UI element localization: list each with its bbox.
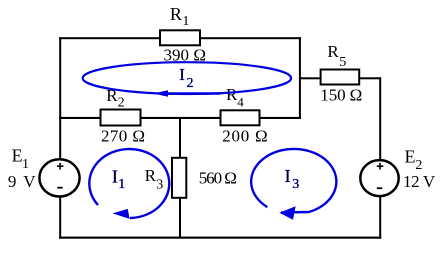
loop current I3 arrowhead [279,206,295,220]
source E1 [39,159,79,196]
loop current I2 ellipse [83,62,291,94]
svg-text:3: 3 [156,177,163,192]
svg-text:E: E [12,145,23,165]
svg-text:1: 1 [118,177,125,192]
wire middle vertical (R3 branch) [179,117,181,238]
wire middle rail [59,117,301,119]
source E2 [360,160,398,196]
svg-text:150 Ω: 150 Ω [320,85,362,104]
wire top rail [59,37,301,39]
svg-text:5: 5 [339,55,346,70]
svg-text:2: 2 [415,158,422,173]
svg-text:12 V: 12 V [403,172,436,191]
E1 plus sign [57,163,64,170]
svg-text:1: 1 [22,157,29,172]
svg-text:I: I [285,166,291,186]
wire right rail [379,77,381,238]
svg-text:1: 1 [182,14,189,29]
resistor R1 [160,30,200,45]
svg-text:4: 4 [237,95,244,110]
loop current I2 arrow [166,92,220,94]
E2 minus sign [377,187,382,189]
loop current I3 arc [251,149,336,213]
svg-text:2: 2 [187,76,194,91]
svg-text:R: R [226,85,238,104]
loop current I1 arrowhead [112,209,129,219]
resistor R5 [321,70,360,85]
wire bottom rail [59,237,381,239]
svg-text:270 Ω: 270 Ω [101,126,145,145]
E1 minus sign [57,187,62,189]
svg-text:R: R [170,4,182,24]
wire R5 branch [300,77,381,79]
svg-text:R: R [145,166,157,185]
svg-text:2: 2 [118,96,125,111]
svg-text:R: R [327,42,339,61]
svg-text:E: E [405,146,416,166]
svg-text:I: I [112,166,118,186]
wire left rail [59,37,61,239]
resistor R4 [221,110,260,125]
svg-text:560 Ω: 560 Ω [199,168,237,187]
E2 plus sign [377,163,384,170]
svg-text:I: I [179,65,185,84]
resistor R2 [101,110,141,126]
loop current I1 arc [89,149,169,218]
svg-text:200 Ω: 200 Ω [222,126,267,145]
resistor R3 [172,158,186,198]
wire inner right rail [299,37,301,119]
svg-text:3: 3 [292,177,299,192]
